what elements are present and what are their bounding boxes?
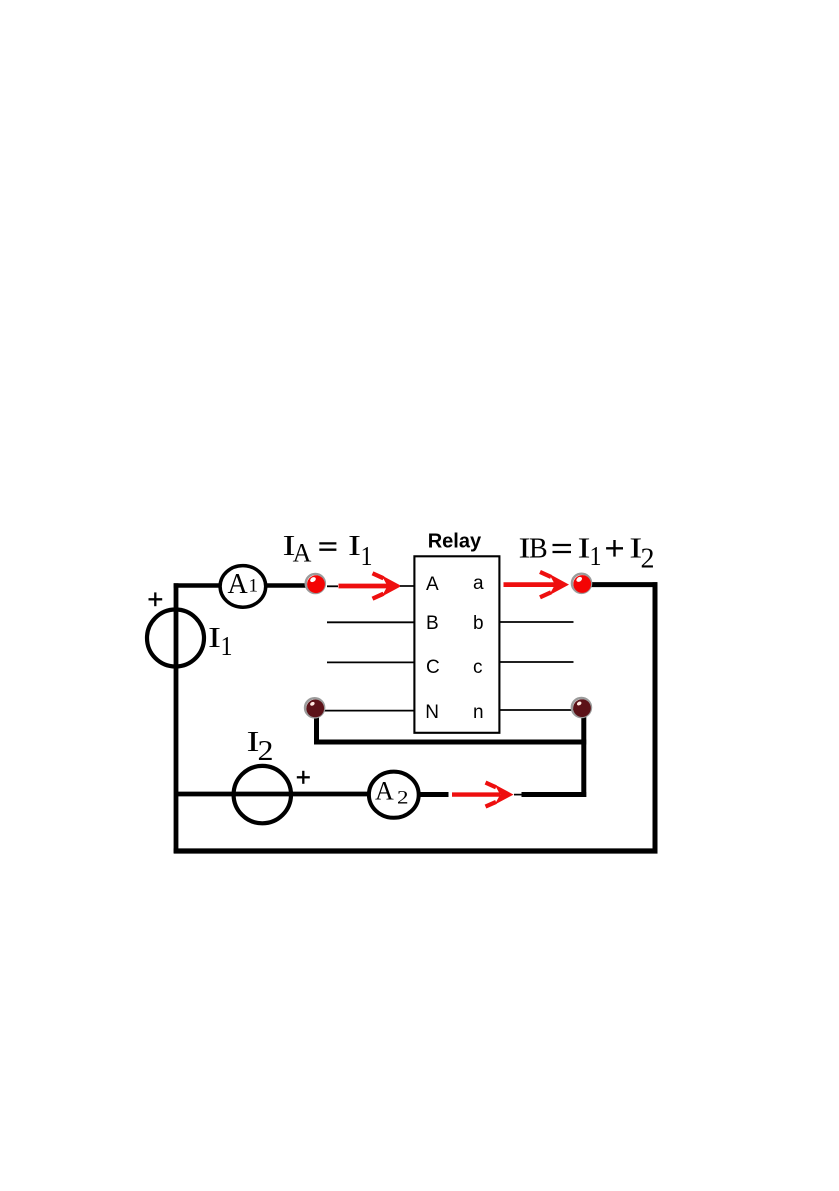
plus sign of source I2 [297, 771, 310, 784]
relay box [414, 556, 499, 733]
wire stub pin c right [500, 661, 574, 663]
node terminal dot (dark, left of relay N) [305, 698, 324, 717]
wire stub pin n right [500, 709, 574, 711]
svg-text:1: 1 [221, 631, 233, 661]
node terminal dot (red, left of relay A) [306, 574, 325, 593]
node terminal dot (red, right of relay a) [572, 574, 591, 593]
current source I2 [234, 766, 291, 823]
label IA = I1 [283, 531, 373, 571]
wire bottom horizontal [174, 848, 658, 853]
wire thin dash after red dot [327, 585, 338, 587]
svg-text:2: 2 [397, 788, 409, 809]
label I2 [247, 727, 274, 767]
svg-text:A: A [375, 777, 394, 806]
ammeter A2 [369, 772, 419, 818]
svg-text:A: A [293, 539, 312, 568]
wire thin after arrow tip [514, 794, 522, 796]
svg-text:B: B [529, 534, 548, 565]
wire ammeter A1 to node [265, 583, 307, 588]
svg-text:b: b [473, 613, 484, 634]
svg-text:a: a [473, 573, 484, 594]
wire A2 row left segment (through current source I2) [176, 792, 370, 797]
wire ammeter A2 to arrow [419, 792, 449, 797]
svg-text:I: I [208, 623, 221, 654]
svg-text:n: n [473, 702, 484, 723]
svg-text:1: 1 [590, 541, 602, 571]
svg-text:Relay: Relay [428, 530, 482, 553]
svg-text:B: B [426, 613, 439, 634]
svg-text:2: 2 [641, 544, 655, 575]
wire right vertical [653, 582, 658, 853]
plus sign of source I1 [149, 592, 163, 606]
svg-text:N: N [425, 702, 439, 723]
wire stub pin B left [327, 621, 414, 623]
wire top right horizontal [591, 582, 657, 587]
wire stub pin C left [327, 661, 414, 663]
wire from right n dot down to A2 row [581, 708, 586, 797]
wire from left N dot down [314, 708, 319, 744]
wire left vertical (through current source I1) [174, 583, 179, 853]
wire stub pin b right [500, 621, 574, 623]
svg-text:1: 1 [361, 541, 373, 571]
wire top horizontal left segment (corner to ammeter A1) [174, 583, 222, 588]
label IB = I1 + I2 [519, 534, 655, 575]
svg-text:1: 1 [249, 575, 259, 596]
label I1 [208, 623, 233, 661]
wire thin lead into relay pin A [400, 585, 414, 587]
svg-text:c: c [473, 657, 483, 678]
wire N bottom horizontal [314, 740, 586, 745]
svg-text:I: I [348, 531, 361, 562]
svg-text:2: 2 [258, 735, 274, 767]
current arrow IA (red) [339, 573, 402, 598]
node terminal dot (dark, right of relay n) [572, 698, 591, 717]
wire thick to right N vertical [522, 792, 587, 797]
svg-text:A: A [228, 569, 249, 600]
current arrow IB (red) [504, 572, 570, 597]
svg-text:A: A [426, 574, 439, 595]
ammeter A1 [220, 566, 266, 608]
current source I1 [147, 610, 204, 667]
svg-text:C: C [426, 657, 440, 678]
current arrow I2 branch (red) [452, 783, 514, 807]
wire stub pin N left [322, 710, 414, 712]
